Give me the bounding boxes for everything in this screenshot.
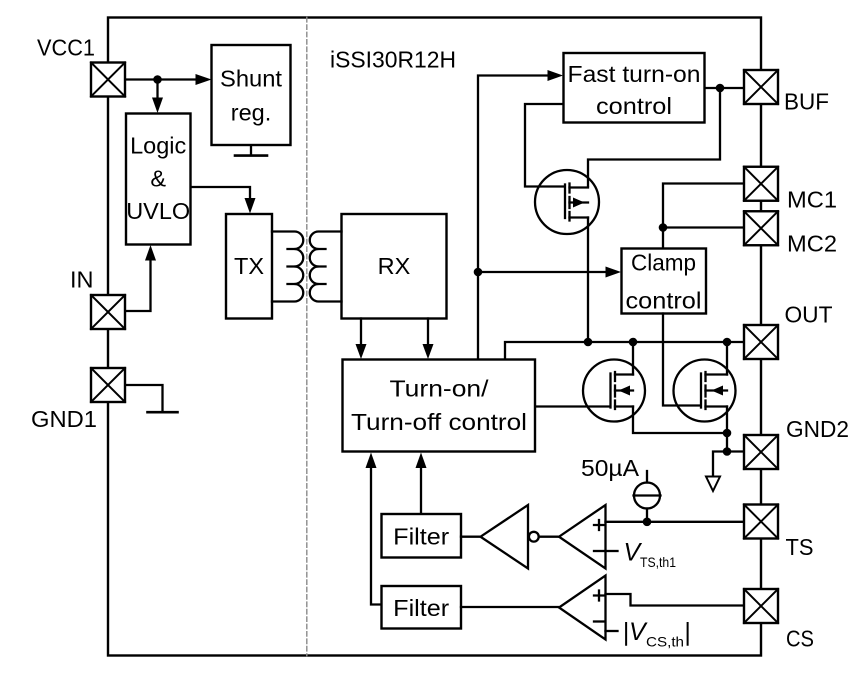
- wire GND2 to ground arrow: [713, 452, 727, 476]
- wire Q1 source down to OUT bus: [587, 218, 589, 342]
- TX box: [226, 214, 272, 319]
- svg-text:VCC1: VCC1: [37, 35, 95, 61]
- wire OUT bus: [505, 342, 744, 359]
- node source junction: [723, 429, 732, 438]
- logic UVLO box: [126, 114, 191, 245]
- pin MC1: [744, 167, 778, 201]
- wire fast turn-on to Q1 gate: [525, 104, 564, 187]
- wire RX to turn-on control right: [427, 319, 429, 346]
- svg-text:Shunt: Shunt: [220, 66, 282, 92]
- node bus Q1: [584, 338, 593, 347]
- pin GND2: [744, 435, 778, 469]
- wire Q1 drain to BUF net: [588, 90, 720, 187]
- chip outer border: [108, 18, 761, 656]
- comparator U4: [559, 576, 606, 640]
- clamp control box: [622, 249, 707, 314]
- pin VCC1: [91, 63, 125, 97]
- RX box: [342, 214, 447, 319]
- svg-text:UVLO: UVLO: [126, 198, 190, 224]
- svg-text:50µA: 50µA: [581, 455, 639, 481]
- transformer primary winding: [272, 232, 303, 302]
- svg-text:Fast turn-on: Fast turn-on: [568, 61, 701, 87]
- wire Q2 drain: [632, 342, 634, 375]
- wire shunt reg to ground: [250, 146, 252, 155]
- comparator1 Vref stub: [606, 550, 618, 552]
- svg-text:Filter: Filter: [393, 524, 449, 550]
- svg-text:GND2: GND2: [786, 416, 849, 442]
- svg-text:reg.: reg.: [231, 100, 272, 126]
- wire filter1 to turn-on control: [420, 467, 422, 514]
- svg-text:TS: TS: [786, 534, 814, 560]
- wire Q3 source: [726, 407, 728, 434]
- wire filter2 to comparator2: [461, 606, 558, 608]
- node bus Q2: [629, 338, 638, 347]
- pin BUF: [744, 70, 778, 104]
- svg-text:Turn-on/: Turn-on/: [390, 376, 490, 402]
- wire IN to Logic UVLO: [125, 260, 151, 311]
- shunt regulator box: [212, 45, 291, 145]
- wire clamp control to Q3 gate: [663, 314, 700, 406]
- isolation barrier dashed line: [306, 18, 308, 656]
- svg-text:TX: TX: [234, 253, 264, 279]
- pin IN: [91, 295, 125, 329]
- wire Logic to TX: [191, 187, 251, 198]
- transistor Q2: [583, 360, 645, 422]
- wire GND1 to ground: [125, 385, 163, 411]
- wire MC2 to MC1 net: [663, 226, 744, 228]
- svg-text:&: &: [150, 166, 166, 192]
- wire turn-on control feedback net to fast turn-on: [478, 76, 548, 360]
- transistor Q1: [535, 170, 599, 234]
- node bus Q3: [723, 338, 732, 347]
- wire CS to comparator2: [606, 594, 745, 606]
- turn-on turn-off control box: [343, 360, 536, 452]
- fast turn-on control box: [564, 53, 705, 123]
- svg-text:|: |: [684, 618, 691, 646]
- wire MC1 to clamp control: [663, 184, 744, 249]
- svg-text:control: control: [596, 93, 672, 119]
- svg-text:Turn-off control: Turn-off control: [351, 409, 527, 435]
- wire source junction to GND2: [727, 433, 744, 452]
- wire Q3 drain: [726, 342, 728, 375]
- node BUF junction: [716, 84, 725, 93]
- pin GND1: [91, 368, 125, 402]
- inverter U2: [481, 505, 529, 569]
- svg-text:OUT: OUT: [785, 302, 833, 328]
- comparator1 minus sign: [594, 550, 604, 552]
- node GND2 junction: [723, 447, 732, 456]
- transformer secondary winding: [310, 232, 342, 302]
- wire comparator1 to inverter: [539, 536, 558, 538]
- svg-text:CS,th: CS,th: [646, 634, 684, 650]
- svg-text:CS: CS: [786, 626, 814, 652]
- comparator1 plus sign: [594, 520, 604, 530]
- comparator2 plus sign: [594, 591, 604, 601]
- ground arrow GND2: [706, 477, 720, 492]
- wire feedback to clamp control: [478, 271, 606, 273]
- current source I1 lead: [646, 471, 648, 522]
- wire inverter to filter1: [461, 536, 479, 538]
- svg-text:IN: IN: [70, 267, 94, 293]
- current source I1: [634, 483, 660, 509]
- wire TS to comparator1: [606, 521, 745, 523]
- svg-text:RX: RX: [378, 253, 411, 279]
- wire VCC1 to shunt reg: [125, 78, 197, 80]
- comparator U3: [559, 505, 606, 569]
- wire Q2 source to GND2 net: [633, 407, 727, 434]
- svg-text:MC2: MC2: [787, 231, 837, 257]
- wire VCC1 junction to Logic UVLO: [156, 80, 158, 99]
- svg-text:Logic: Logic: [130, 133, 186, 159]
- svg-text:Filter: Filter: [393, 595, 449, 621]
- wire turn-on control to Q2 gate: [535, 405, 609, 407]
- pin OUT: [744, 325, 778, 359]
- pin CS: [744, 589, 778, 623]
- comparator2 Vref stub: [606, 630, 618, 632]
- node VCC1 junction: [153, 75, 162, 84]
- filter box F1: [382, 514, 462, 558]
- wire RX to turn-on control left: [360, 319, 362, 346]
- pin TS: [744, 505, 778, 539]
- inverter bubble: [529, 532, 539, 542]
- filter box F2: [382, 586, 462, 629]
- node feedback junction: [474, 268, 483, 277]
- comparator2 minus sign: [594, 620, 604, 622]
- svg-text:GND1: GND1: [31, 406, 97, 432]
- wire filter2 to turn-on control: [371, 467, 382, 605]
- svg-text:MC1: MC1: [787, 187, 837, 213]
- pin MC2: [744, 211, 778, 245]
- transistor Q3: [674, 360, 736, 422]
- svg-text:TS,th1: TS,th1: [640, 554, 676, 570]
- node MC2 junction: [659, 223, 668, 232]
- svg-text:control: control: [626, 288, 702, 314]
- ground GND1 bar: [148, 411, 178, 414]
- svg-text:BUF: BUF: [784, 89, 829, 115]
- svg-text:iSSI30R12H: iSSI30R12H: [330, 47, 456, 73]
- svg-text:Clamp: Clamp: [631, 250, 696, 276]
- svg-text:|V: |V: [623, 618, 648, 646]
- wire fast turn-on to BUF: [705, 87, 745, 89]
- ground shunt bar: [235, 154, 267, 157]
- node TS junction: [643, 518, 652, 527]
